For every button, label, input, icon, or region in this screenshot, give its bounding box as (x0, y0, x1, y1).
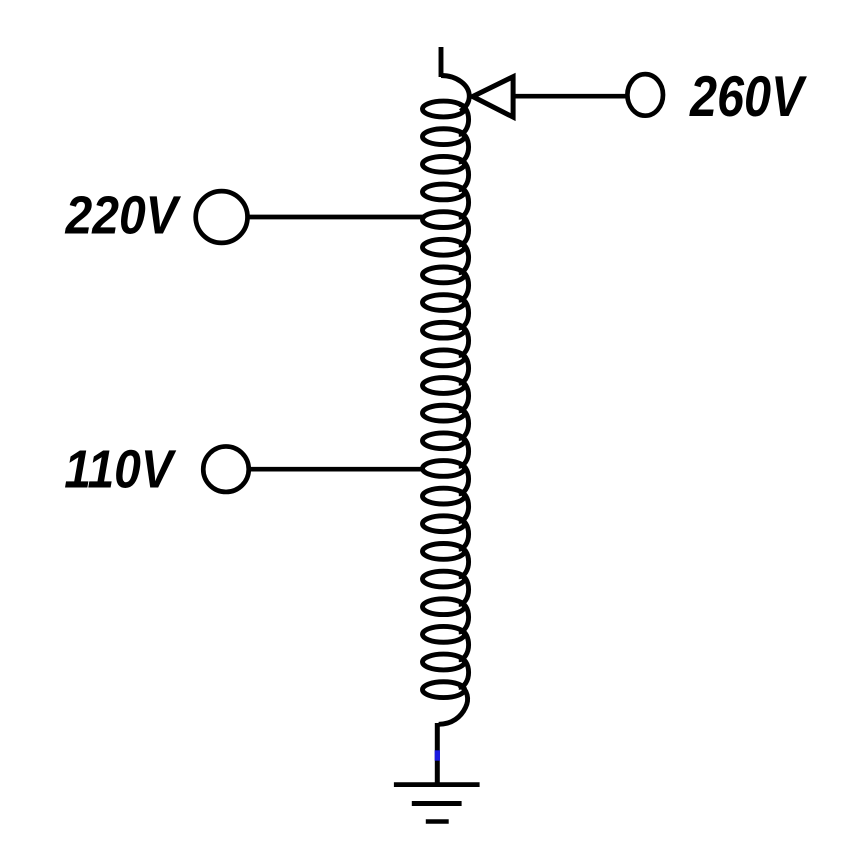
wire top pin of winding (439, 47, 444, 77)
svg-text:260V: 260V (689, 65, 807, 129)
terminal circle 260V (627, 74, 663, 116)
ground (394, 785, 480, 822)
terminal circle 110V (203, 446, 249, 492)
node highlight (blue) on bottom lead (435, 750, 440, 760)
svg-text:110V: 110V (64, 439, 176, 499)
wire 110V tap (249, 467, 425, 472)
terminal circle 220V (196, 191, 248, 243)
wire 260V tap (511, 94, 627, 99)
wire bottom lead to ground (435, 723, 440, 786)
autotransformer winding T1 (423, 76, 470, 725)
wire 220V tap (248, 215, 425, 220)
svg-text:220V: 220V (65, 185, 182, 245)
arrow wiper at top tap (473, 77, 513, 117)
